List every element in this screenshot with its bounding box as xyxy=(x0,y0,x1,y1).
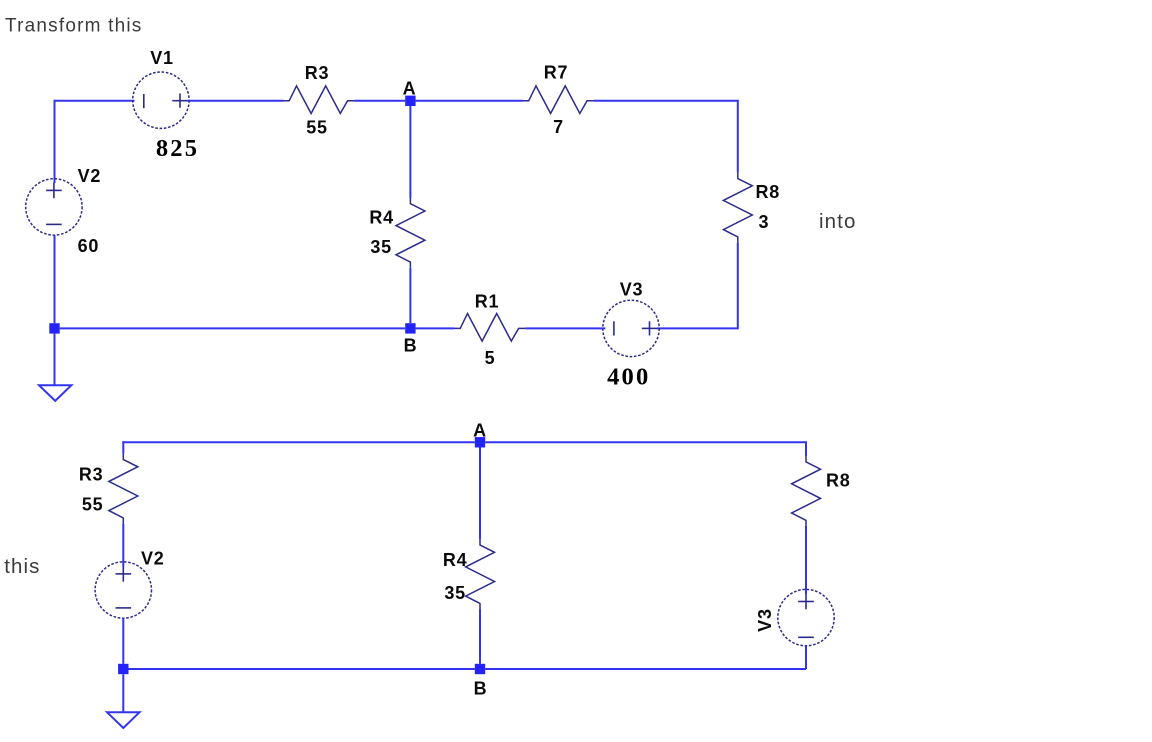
node at ground (top circuit) xyxy=(49,323,59,333)
svg-text:R3: R3 xyxy=(79,465,104,485)
svg-text:R1: R1 xyxy=(475,292,500,312)
svg-text:400: 400 xyxy=(607,364,650,391)
svg-text:R4: R4 xyxy=(369,208,394,228)
svg-text:R4: R4 xyxy=(443,550,468,570)
wire R8 to V3 (bottom) xyxy=(805,526,807,594)
node at ground (bottom circuit) xyxy=(118,664,128,674)
wire node B to R1 xyxy=(416,327,455,329)
voltage source V3 (top circuit) xyxy=(603,300,659,356)
svg-text:R8: R8 xyxy=(826,471,851,491)
ground (bottom circuit) xyxy=(107,712,139,728)
wire bottom rail right segment xyxy=(485,668,806,670)
wire V3 to R1 xyxy=(525,327,605,329)
resistor R1 xyxy=(455,314,526,342)
wire ground stem (bottom circuit) xyxy=(122,674,124,712)
svg-text:35: 35 xyxy=(444,583,466,603)
wire top-left horizontal to V1 xyxy=(55,100,135,102)
svg-text:R8: R8 xyxy=(756,182,781,202)
svg-text:V3: V3 xyxy=(620,280,644,300)
svg-text:V2: V2 xyxy=(78,166,102,186)
wire top-left corner stub (bottom circuit) xyxy=(122,441,124,454)
svg-text:55: 55 xyxy=(306,118,328,138)
node A (bottom circuit) xyxy=(475,437,485,447)
svg-text:5: 5 xyxy=(485,348,496,368)
svg-text:B: B xyxy=(474,679,488,699)
wire V1 to R3 xyxy=(187,100,283,102)
svg-text:R3: R3 xyxy=(305,63,330,83)
wire V2 to ground node (bottom) xyxy=(122,618,124,664)
svg-text:825: 825 xyxy=(156,135,199,162)
svg-text:this: this xyxy=(4,555,40,578)
ground (top circuit) xyxy=(39,385,71,401)
resistor R4 (bottom circuit) xyxy=(466,539,495,609)
resistor R3 xyxy=(284,86,355,114)
wire R4 to node B (bottom) xyxy=(479,609,481,664)
node B (bottom circuit) xyxy=(475,664,485,674)
svg-text:3: 3 xyxy=(759,212,770,232)
wire R3 to node A xyxy=(354,100,405,102)
voltage source V2 (bottom circuit) xyxy=(95,562,151,618)
wire R8 down to bottom-right corner to V3 xyxy=(657,243,738,329)
resistor R7 xyxy=(523,86,594,114)
resistor R3 (bottom circuit) xyxy=(109,454,138,524)
svg-text:55: 55 xyxy=(82,495,104,515)
svg-text:A: A xyxy=(403,79,417,99)
svg-text:60: 60 xyxy=(78,236,100,256)
svg-text:R7: R7 xyxy=(544,63,569,83)
wire bottom horizontal (ground node to node B) xyxy=(60,327,406,329)
wire R3 to V2 (bottom) xyxy=(122,524,124,567)
wire R7 to top-right corner down to R8 xyxy=(594,101,738,173)
wire R4 down to node B xyxy=(409,268,411,323)
resistor R8 (bottom circuit) xyxy=(792,456,821,526)
resistor R8 xyxy=(723,173,752,243)
wire top rail left segment xyxy=(122,441,475,443)
svg-text:into: into xyxy=(819,210,856,233)
wire node A to R7 xyxy=(416,100,523,102)
svg-text:Transform this: Transform this xyxy=(5,15,143,36)
svg-text:7: 7 xyxy=(553,117,564,137)
wire bottom rail left segment xyxy=(129,668,475,670)
svg-text:V2: V2 xyxy=(141,549,165,569)
svg-text:V3: V3 xyxy=(755,608,775,632)
wire top rail right segment xyxy=(485,442,806,456)
wire left vertical from corner to V2 top xyxy=(54,100,56,183)
svg-text:B: B xyxy=(404,336,418,356)
svg-text:A: A xyxy=(473,420,487,440)
wire V3 to bottom rail (bottom circuit) xyxy=(805,646,807,669)
voltage source V2 xyxy=(26,179,82,235)
resistor R4 xyxy=(396,198,425,268)
wire node A down to R4 (bottom) xyxy=(479,448,481,540)
wire node A down to R4 xyxy=(409,106,411,198)
svg-text:35: 35 xyxy=(370,237,392,257)
wire ground stem (top circuit) xyxy=(54,334,56,385)
voltage source V1 xyxy=(133,72,189,128)
voltage source V3 (bottom circuit) xyxy=(778,589,834,645)
svg-text:V1: V1 xyxy=(150,48,174,68)
node B xyxy=(405,323,415,333)
node A xyxy=(405,96,415,106)
wire V2 bottom to ground node xyxy=(54,235,56,323)
